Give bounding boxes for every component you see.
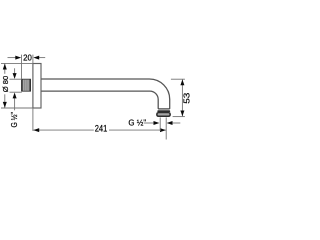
wire: extension line from thread top — [10, 78, 22, 80]
wire: dimension line left segment — [33, 129, 94, 131]
wire: extension line at flange wall face — [32, 55, 34, 64]
node: arrowhead pointing up at wall thread — [13, 93, 17, 99]
svg-text:20: 20 — [23, 53, 32, 62]
svg-text:241: 241 — [95, 124, 108, 134]
wire: extension line from flange wall face down — [32, 108, 34, 131]
wire: left arrow tail — [8, 57, 16, 59]
wire: dimension line — [181, 79, 183, 116]
wire: outlet pipe end line — [158, 108, 170, 110]
wire: shower arm outer profile (top edge, elbow outer curve, outlet right edge) — [41, 79, 170, 109]
node: wall flange plate (escutcheon, side view) — [33, 64, 41, 109]
wire: lower arrow tail / leader to label — [14, 98, 16, 110]
wire: right arrow tail — [172, 122, 180, 124]
node: arrowhead pointing left at 241 — [33, 128, 39, 132]
wire: extension line below outlet left — [159, 117, 161, 130]
dimension G1/2 outlet thread, bottom right — [144, 117, 180, 130]
wire: extension line from flange top — [1, 62, 33, 64]
wire: dimension line right segment — [109, 129, 166, 131]
node: arrowhead pointing right at 241 — [160, 128, 166, 132]
node: arrowhead pointing down at wall thread — [13, 73, 17, 79]
node: wall-side threaded stub G1/2 (hatched block) — [22, 79, 31, 91]
wire: extension line from outlet bottom — [173, 116, 185, 118]
dimension 241: arm length, bottom — [33, 108, 166, 140]
node: arrowhead pointing up at O80 — [3, 64, 7, 70]
dimension 20: wall thread length, top left — [8, 55, 46, 80]
dimension O80: flange diameter, left side — [1, 63, 33, 108]
node: arrowhead pointing down at 53 — [180, 111, 184, 117]
svg-text:G ½": G ½" — [128, 118, 146, 127]
wire: extension line below outlet right — [165, 117, 167, 139]
dimension G1/2 wall thread, lower left — [10, 68, 22, 110]
svg-text:G ½": G ½" — [10, 112, 20, 128]
node: outlet collar ring — [157, 110, 170, 112]
node: arrowhead pointing right at outlet thread — [154, 121, 160, 125]
wire: leader arrow tail from label — [144, 122, 154, 124]
node: arrowhead pointing left at outlet thread — [167, 121, 173, 125]
node: outlet knurled nut (G1/2 outlet thread) — [156, 112, 171, 117]
wire: extension line at thread end — [21, 55, 23, 80]
wire: dimension line upper segment — [4, 64, 6, 74]
dimension 53: outlet drop height, right side — [171, 79, 185, 116]
svg-text:53: 53 — [182, 93, 190, 104]
wire: extension line from arm top — [171, 78, 185, 80]
wire: dimension line lower segment — [4, 94, 6, 108]
wire: extension line from thread bottom — [10, 91, 22, 93]
wire: extension line from flange bottom — [1, 107, 33, 109]
wire: upper arrow tail — [14, 68, 16, 73]
wire: right arrow tail — [39, 57, 45, 59]
node: arrowhead pointing right at dimension 20 — [15, 56, 21, 60]
node: arrowhead pointing left at dimension 20 — [33, 56, 39, 60]
wire: shower arm inner profile (bottom edge, elbow inner curve, outlet left edge) — [41, 91, 158, 109]
node: arrowhead pointing down at O80 — [3, 102, 7, 108]
svg-text:Ø 80: Ø 80 — [1, 76, 10, 92]
node: arrowhead pointing up at 53 — [180, 80, 184, 86]
